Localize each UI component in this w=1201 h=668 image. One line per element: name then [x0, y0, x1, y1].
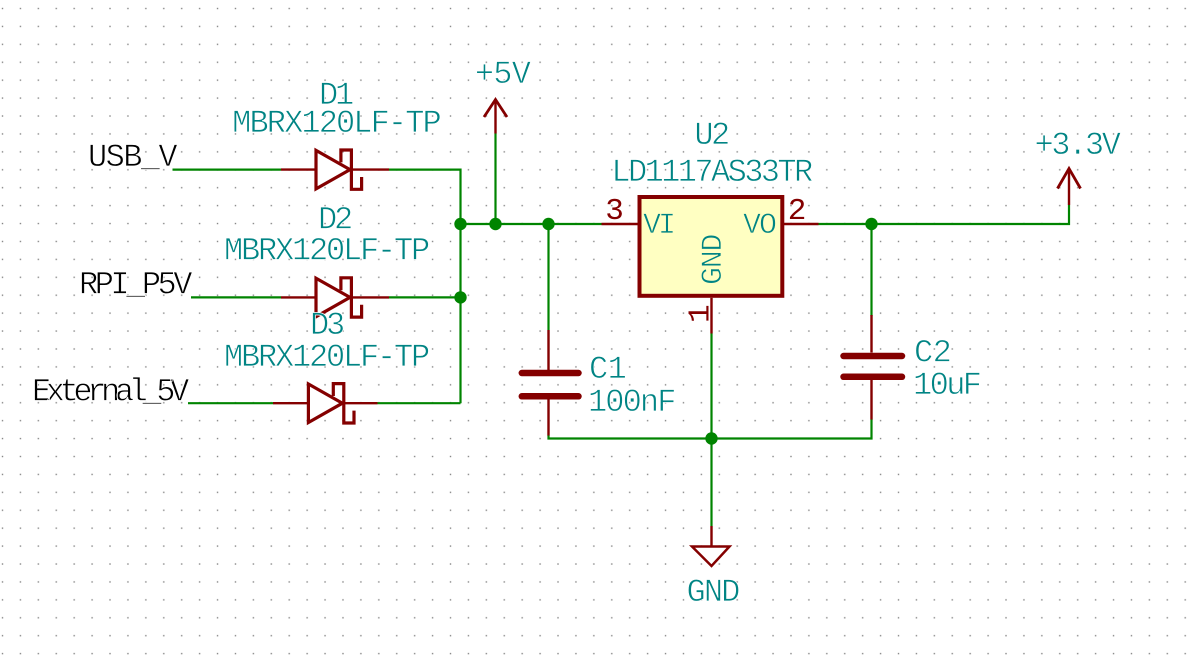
svg-text:External_5V: External_5V: [32, 374, 190, 411]
power symbol +5V: [484, 100, 507, 134]
svg-text:+5V: +5V: [475, 56, 532, 93]
diode D1: [281, 150, 389, 189]
wire External_5V label to D3 anode: [188, 402, 273, 404]
svg-text:VI: VI: [643, 209, 674, 243]
junction at D1 output on bus: [454, 218, 466, 230]
svg-text:+3.3V: +3.3V: [1034, 127, 1121, 164]
pin 1 U2: [710, 298, 712, 334]
wire D2 cathode to junction: [389, 296, 461, 298]
diode D2: [281, 278, 389, 317]
svg-text:2: 2: [788, 194, 807, 229]
svg-text:MBRX120LF-TP: MBRX120LF-TP: [224, 233, 429, 270]
svg-text:MBRX120LF-TP: MBRX120LF-TP: [224, 339, 429, 376]
wire U2 GND down to gnd symbol: [710, 334, 712, 527]
wire +5V bus to U2 VI: [461, 223, 602, 225]
capacitor C2: [844, 315, 903, 420]
pin 3 U2: [602, 223, 638, 225]
svg-text:C1: C1: [589, 351, 626, 388]
svg-text:U2: U2: [694, 117, 728, 154]
wire USB_V label to D1 anode: [173, 169, 282, 171]
svg-text:MBRX120LF-TP: MBRX120LF-TP: [232, 105, 440, 142]
svg-text:RPI_P5V: RPI_P5V: [79, 267, 193, 304]
capacitor C1: [522, 330, 579, 436]
wire +5V stem: [494, 134, 496, 225]
svg-text:GND: GND: [697, 235, 731, 285]
regulator U2 body: [640, 197, 783, 296]
ground symbol: [692, 526, 730, 566]
diode D3: [273, 384, 378, 423]
wire C2 top: [870, 224, 872, 316]
wire U2 VO to +3.3V: [819, 205, 1070, 224]
svg-text:3: 3: [605, 194, 624, 229]
svg-text:100nF: 100nF: [588, 384, 675, 421]
svg-text:10uF: 10uF: [913, 367, 980, 404]
svg-text:GND: GND: [687, 574, 740, 611]
svg-text:1: 1: [684, 304, 719, 323]
wire C1 top: [547, 224, 549, 330]
wire bottom bus C1 to C2: [549, 419, 872, 439]
junction at C1 top on bus: [542, 218, 554, 230]
pin 2 U2: [784, 223, 819, 225]
power symbol +3.3V: [1058, 169, 1081, 206]
junction at +5V stem on bus: [489, 218, 501, 230]
wire D1 cathode to corner, down the shared vertical: [389, 170, 461, 404]
svg-text:VO: VO: [743, 209, 776, 243]
junction at gnd bottom bus: [705, 432, 717, 444]
svg-text:USB_V: USB_V: [88, 139, 178, 176]
wire D3 cathode to corner: [378, 402, 461, 404]
junction at C2 top / VO: [865, 218, 877, 230]
junction at D2 output: [454, 291, 466, 303]
svg-text:C2: C2: [914, 335, 951, 372]
wire RPI_P5V label to D2 anode: [191, 296, 281, 298]
svg-text:LD1117AS33TR: LD1117AS33TR: [611, 154, 813, 191]
